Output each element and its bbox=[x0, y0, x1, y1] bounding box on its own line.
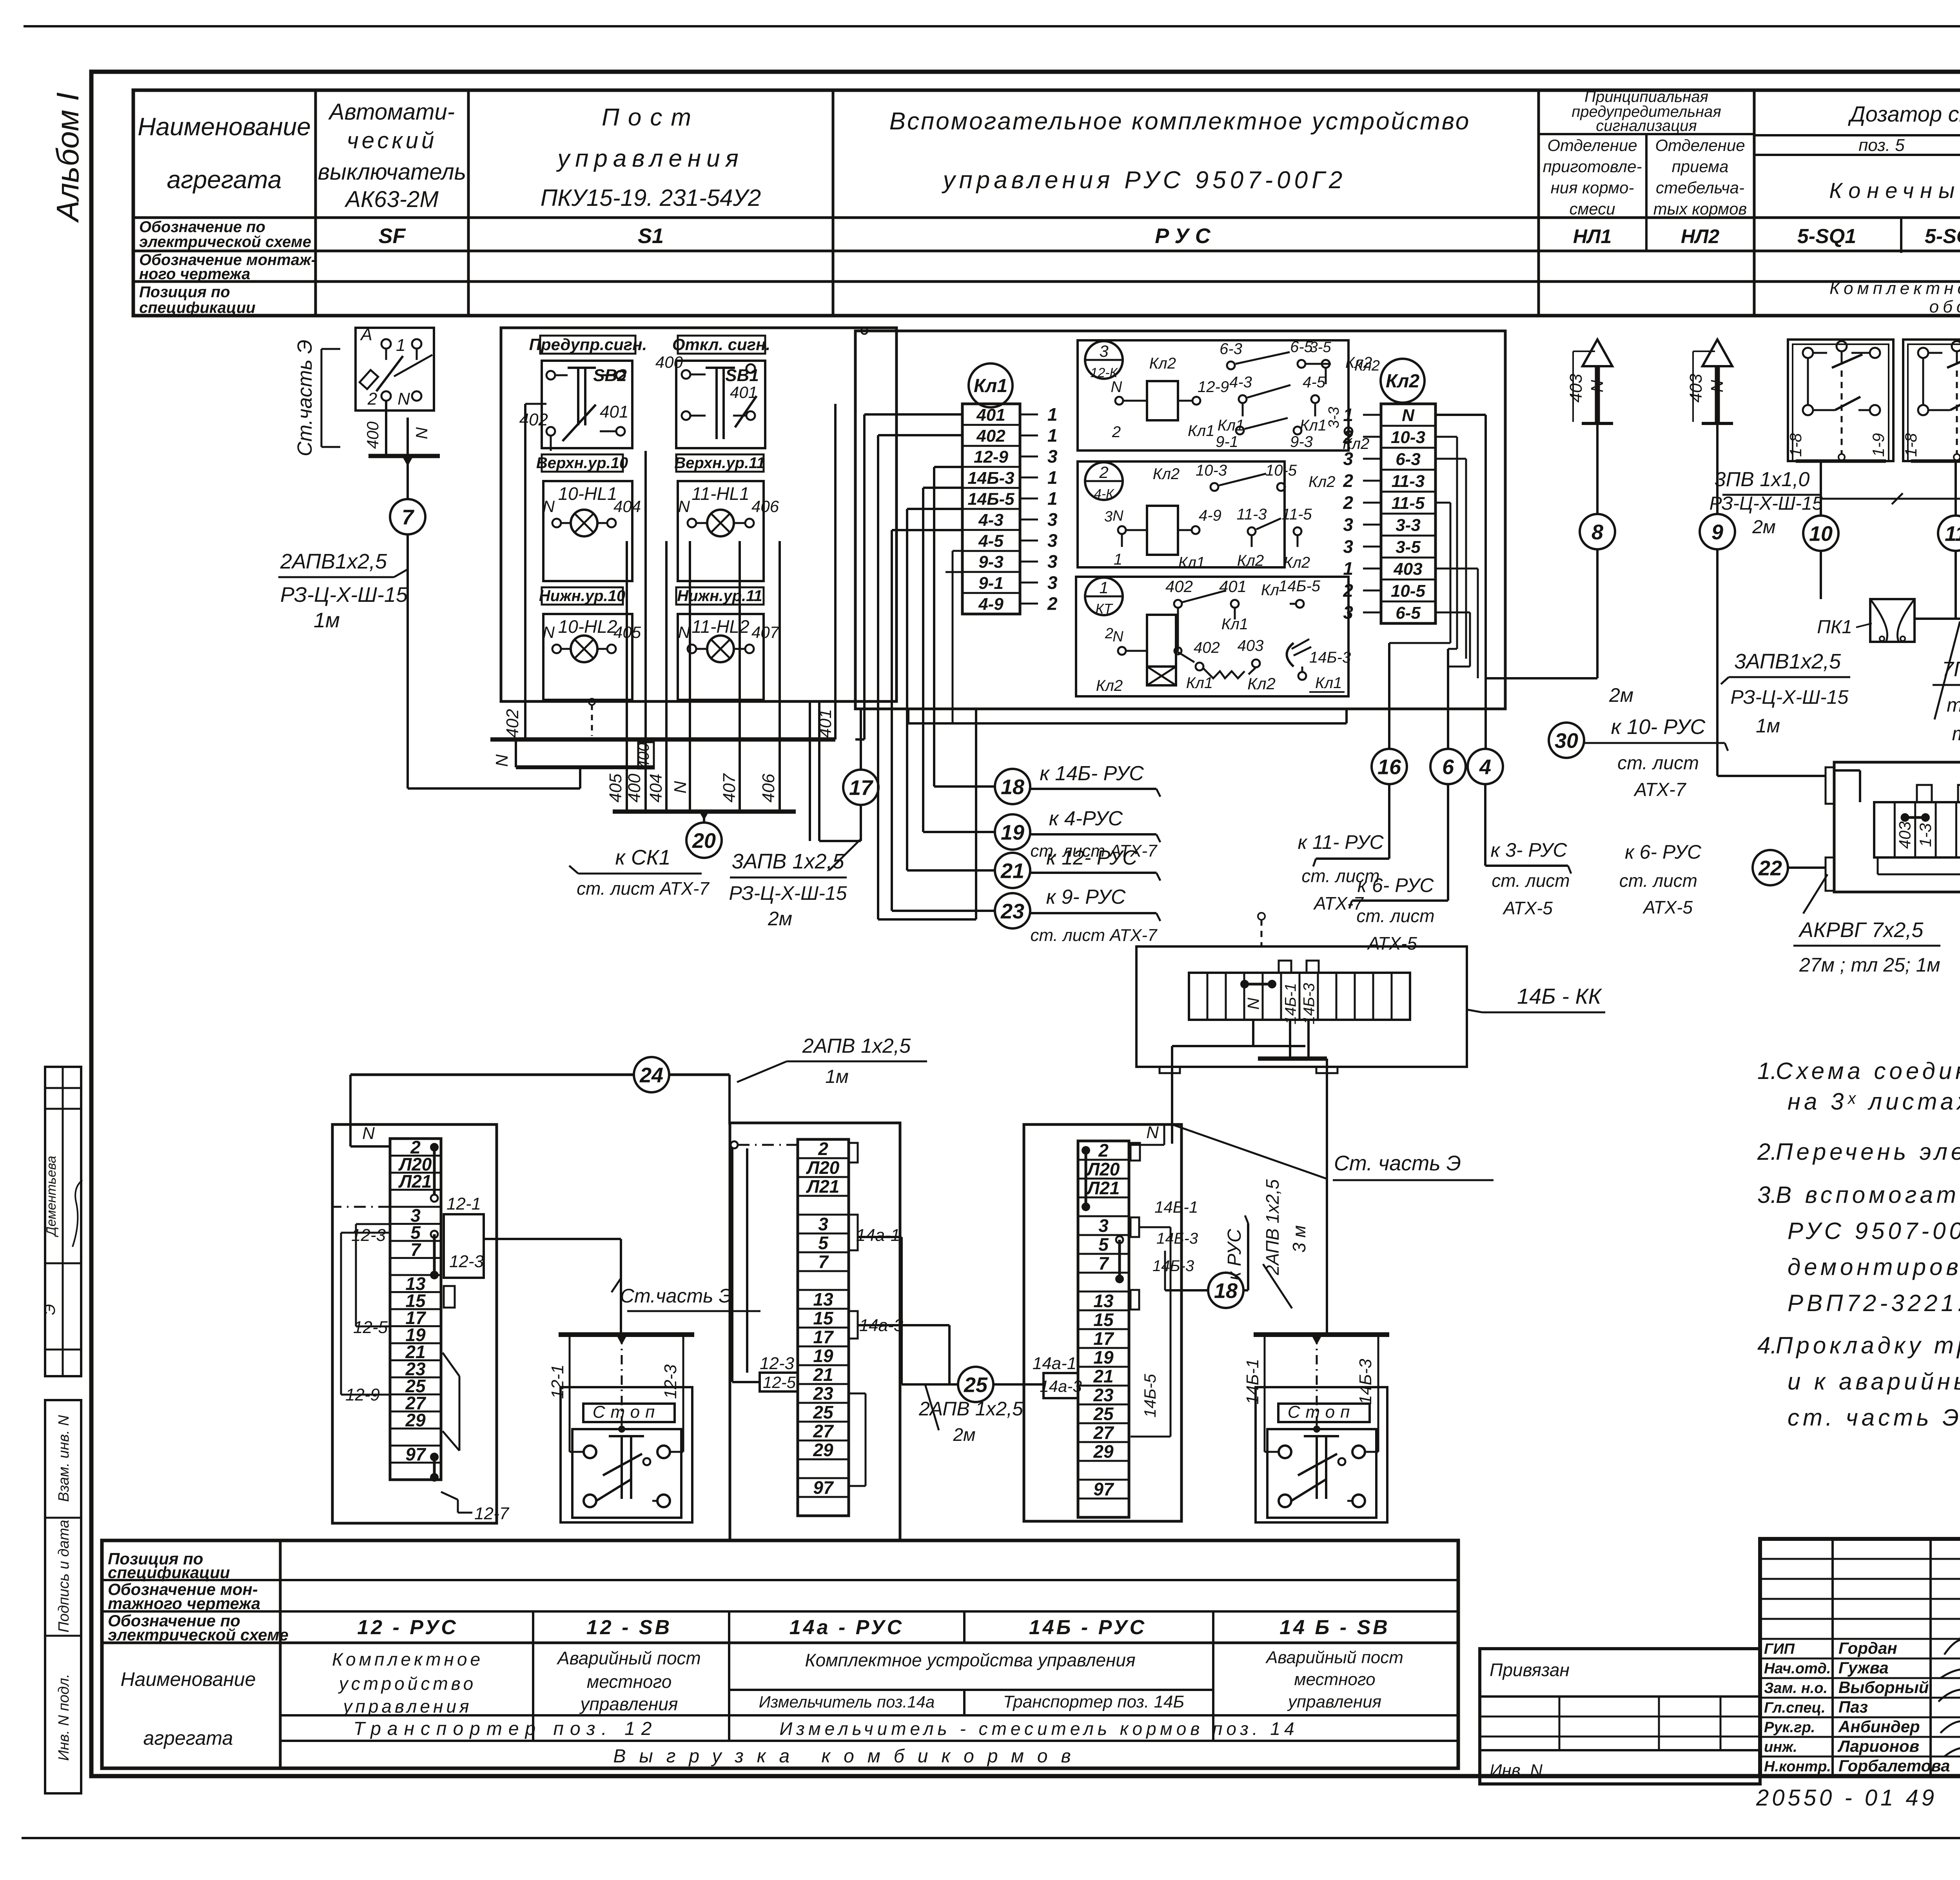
svg-text:14Б-1: 14Б-1 bbox=[1282, 983, 1299, 1024]
svg-text:спецификации: спецификации bbox=[139, 299, 256, 316]
svg-text:14Б-1: 14Б-1 bbox=[1243, 1359, 1262, 1405]
svg-text:Кл2: Кл2 bbox=[1247, 674, 1276, 693]
svg-text:Стоп: Стоп bbox=[593, 1402, 661, 1422]
svg-text:4-3: 4-3 bbox=[978, 510, 1004, 530]
svg-text:Ларионов: Ларионов bbox=[1837, 1737, 1919, 1755]
svg-text:14Б-5: 14Б-5 bbox=[1141, 1374, 1159, 1418]
svg-text:12-7: 12-7 bbox=[474, 1504, 510, 1523]
svg-text:1: 1 bbox=[1047, 467, 1058, 488]
svg-text:5: 5 bbox=[818, 1233, 829, 1253]
svg-text:Инв. N подл.: Инв. N подл. bbox=[56, 1674, 72, 1761]
svg-text:2.: 2. bbox=[1757, 1139, 1777, 1165]
svg-text:3АПВ1х2,5: 3АПВ1х2,5 bbox=[1734, 650, 1841, 673]
svg-text:29: 29 bbox=[405, 1410, 426, 1430]
svg-text:17: 17 bbox=[813, 1327, 834, 1347]
svg-text:РЗ-Ц-Х-Ш-15: РЗ-Ц-Х-Ш-15 bbox=[1731, 686, 1849, 708]
svg-text:3-3: 3-3 bbox=[1326, 407, 1342, 429]
svg-text:т 25; 5м: т 25; 5м bbox=[1952, 723, 1960, 745]
svg-text:27: 27 bbox=[1093, 1422, 1114, 1443]
svg-text:23: 23 bbox=[1000, 899, 1024, 923]
svg-text:2: 2 bbox=[1112, 423, 1121, 441]
svg-text:оборудованием: оборудованием bbox=[1929, 297, 1960, 316]
svg-text:10-HL1: 10-HL1 bbox=[558, 483, 617, 504]
svg-text:3-5: 3-5 bbox=[1396, 538, 1421, 557]
svg-text:N: N bbox=[1146, 1123, 1159, 1142]
svg-text:14а-1: 14а-1 bbox=[1033, 1354, 1077, 1373]
svg-text:401: 401 bbox=[976, 405, 1005, 425]
svg-text:10-5: 10-5 bbox=[1391, 581, 1426, 601]
svg-text:1: 1 bbox=[396, 336, 405, 355]
svg-text:Подпись и дата: Подпись и дата bbox=[56, 1520, 72, 1632]
svg-text:приготовле-: приготовле- bbox=[1543, 157, 1642, 176]
svg-text:4-9: 4-9 bbox=[1199, 507, 1221, 524]
svg-text:РЗ-Ц-Х-Ш-15: РЗ-Ц-Х-Ш-15 bbox=[729, 882, 847, 904]
svg-text:402: 402 bbox=[519, 410, 548, 429]
svg-text:НЛ2: НЛ2 bbox=[1681, 225, 1719, 247]
svg-text:4-К: 4-К bbox=[1094, 487, 1114, 501]
svg-text:14а - РУС: 14а - РУС bbox=[789, 1616, 904, 1639]
svg-text:к 4-РУС: к 4-РУС bbox=[1049, 807, 1123, 830]
svg-text:4.: 4. bbox=[1757, 1332, 1777, 1359]
svg-text:Кл1: Кл1 bbox=[1186, 674, 1213, 692]
svg-text:местного: местного bbox=[587, 1671, 672, 1692]
svg-text:1м: 1м bbox=[825, 1066, 849, 1087]
svg-text:2: 2 bbox=[1343, 492, 1353, 513]
svg-text:29: 29 bbox=[1093, 1441, 1114, 1462]
svg-text:А: А bbox=[359, 325, 372, 344]
svg-text:Верхн.ур.11: Верхн.ур.11 bbox=[674, 454, 765, 472]
svg-text:12 - SB: 12 - SB bbox=[586, 1616, 672, 1639]
svg-text:2АПВ 1х2,5: 2АПВ 1х2,5 bbox=[802, 1035, 911, 1057]
svg-text:1: 1 bbox=[1099, 578, 1108, 597]
svg-text:Комплектное устройства управле: Комплектное устройства управления bbox=[805, 1650, 1135, 1670]
svg-text:к 9- РУС: к 9- РУС bbox=[1046, 886, 1126, 908]
svg-text:Комплектно с технологическим: Комплектно с технологическим bbox=[1829, 279, 1960, 298]
svg-text:N: N bbox=[671, 781, 690, 794]
svg-text:407: 407 bbox=[720, 773, 739, 803]
svg-text:5: 5 bbox=[1098, 1234, 1109, 1255]
svg-text:3: 3 bbox=[1047, 509, 1058, 530]
svg-text:N: N bbox=[678, 623, 690, 641]
svg-text:инж.: инж. bbox=[1764, 1739, 1797, 1755]
svg-text:1м: 1м bbox=[314, 609, 340, 632]
svg-text:3-5: 3-5 bbox=[1310, 339, 1332, 356]
svg-text:14а-3: 14а-3 bbox=[1040, 1377, 1082, 1395]
svg-text:2: 2 bbox=[1099, 463, 1108, 481]
svg-text:8: 8 bbox=[1592, 520, 1603, 544]
svg-text:Верхн.ур.10: Верхн.ур.10 bbox=[536, 454, 628, 472]
svg-text:ст. лист: ст. лист bbox=[1492, 870, 1570, 891]
svg-text:400: 400 bbox=[363, 421, 382, 449]
svg-text:2: 2 bbox=[1105, 625, 1113, 642]
svg-text:ст. лист: ст. лист bbox=[1356, 906, 1434, 926]
svg-text:Анбиндер: Анбиндер bbox=[1838, 1717, 1920, 1736]
svg-text:Транспортер поз. 12: Транспортер поз. 12 bbox=[354, 1718, 658, 1739]
svg-text:1: 1 bbox=[1047, 404, 1058, 425]
svg-text:4: 4 bbox=[1479, 755, 1491, 779]
svg-text:N: N bbox=[492, 754, 512, 767]
svg-text:2: 2 bbox=[818, 1139, 828, 1159]
svg-text:Инв. N: Инв. N bbox=[1490, 1761, 1543, 1780]
svg-text:N: N bbox=[543, 497, 555, 516]
svg-text:Наименование: Наименование bbox=[120, 1668, 256, 1690]
svg-text:N: N bbox=[412, 427, 431, 439]
svg-text:97: 97 bbox=[1093, 1479, 1114, 1499]
svg-text:29: 29 bbox=[813, 1440, 833, 1460]
svg-text:к 3- РУС: к 3- РУС bbox=[1490, 839, 1567, 861]
svg-text:1: 1 bbox=[1047, 488, 1058, 509]
svg-text:SB1: SB1 bbox=[725, 366, 759, 385]
svg-text:22: 22 bbox=[1758, 856, 1782, 880]
svg-text:3: 3 bbox=[1099, 342, 1108, 360]
svg-text:ГИП: ГИП bbox=[1764, 1641, 1795, 1657]
svg-text:Измельчитель - стеситель корм: Измельчитель - стеситель кормов поз. 14 bbox=[779, 1718, 1298, 1739]
svg-text:Позиция по: Позиция по bbox=[139, 283, 230, 301]
svg-text:10: 10 bbox=[1809, 522, 1833, 545]
svg-text:Предупр.сигн.: Предупр.сигн. bbox=[529, 335, 647, 354]
svg-text:14Б-3: 14Б-3 bbox=[1152, 1257, 1194, 1275]
svg-text:Кл1: Кл1 bbox=[974, 376, 1007, 396]
svg-text:стебельча-: стебельча- bbox=[1656, 178, 1744, 197]
svg-text:Автомати-: Автомати- bbox=[328, 99, 455, 125]
svg-text:400: 400 bbox=[625, 774, 644, 803]
svg-text:Кл1: Кл1 bbox=[1178, 554, 1205, 571]
svg-text:1-3: 1-3 bbox=[1916, 823, 1935, 847]
svg-text:19: 19 bbox=[1001, 821, 1024, 844]
svg-text:13: 13 bbox=[1093, 1291, 1114, 1311]
svg-text:N: N bbox=[397, 389, 410, 409]
svg-text:1-8: 1-8 bbox=[1786, 433, 1805, 457]
svg-text:местного: местного bbox=[1294, 1670, 1375, 1689]
svg-text:Комплектное: Комплектное bbox=[332, 1649, 483, 1669]
svg-text:Кл: Кл bbox=[1261, 581, 1279, 599]
svg-text:1-8: 1-8 bbox=[1902, 433, 1920, 457]
svg-text:3: 3 bbox=[1104, 509, 1112, 525]
svg-text:к 14Б- РУС: к 14Б- РУС bbox=[1040, 762, 1144, 785]
svg-text:к 11- РУС: к 11- РУС bbox=[1298, 831, 1384, 853]
svg-text:демонтировать и заменить на ре: демонтировать и заменить на реле времени bbox=[1788, 1254, 1960, 1280]
svg-text:ческий: ческий bbox=[347, 128, 437, 153]
svg-text:ст. лист АТХ-7: ст. лист АТХ-7 bbox=[577, 878, 710, 899]
svg-text:10-3: 10-3 bbox=[1391, 428, 1425, 447]
svg-text:ст. лист АТХ-7: ст. лист АТХ-7 bbox=[1030, 926, 1158, 945]
svg-text:3АПВ 1х2,5: 3АПВ 1х2,5 bbox=[731, 850, 844, 873]
svg-text:ния кормо-: ния кормо- bbox=[1551, 178, 1634, 197]
svg-text:24: 24 bbox=[639, 1063, 663, 1087]
svg-text:АТХ-5: АТХ-5 bbox=[1642, 897, 1693, 917]
svg-text:Привязан: Привязан bbox=[1490, 1660, 1570, 1680]
svg-text:Гордан: Гордан bbox=[1838, 1639, 1897, 1657]
svg-text:1: 1 bbox=[1114, 551, 1122, 568]
svg-text:АТХ-5: АТХ-5 bbox=[1502, 898, 1553, 918]
svg-text:400: 400 bbox=[635, 743, 652, 769]
svg-text:2м: 2м bbox=[1609, 684, 1633, 706]
svg-text:12-5: 12-5 bbox=[763, 1373, 796, 1391]
svg-text:SB2: SB2 bbox=[593, 366, 627, 385]
svg-text:N: N bbox=[1112, 628, 1123, 645]
svg-text:14Б - РУС: 14Б - РУС bbox=[1029, 1616, 1147, 1639]
svg-text:7: 7 bbox=[410, 1239, 421, 1260]
svg-text:В вспомогательном устройстве у: В вспомогательном устройстве управления bbox=[1776, 1182, 1960, 1208]
svg-text:3: 3 bbox=[1047, 551, 1058, 572]
svg-text:3: 3 bbox=[818, 1214, 828, 1234]
svg-text:6-5: 6-5 bbox=[1396, 603, 1421, 623]
svg-text:1: 1 bbox=[1047, 425, 1058, 446]
svg-text:7: 7 bbox=[818, 1252, 829, 1272]
svg-text:25: 25 bbox=[964, 1373, 988, 1397]
svg-text:тл 25; 4м: тл 25; 4м bbox=[1947, 694, 1960, 716]
svg-text:Л21: Л21 bbox=[1086, 1178, 1120, 1198]
svg-text:НЛ1: НЛ1 bbox=[1573, 225, 1612, 247]
svg-text:РЗ-Ц-Х-Ш-15: РЗ-Ц-Х-Ш-15 bbox=[1710, 493, 1823, 514]
svg-text:РЗ-Ц-Х-Ш-15: РЗ-Ц-Х-Ш-15 bbox=[280, 583, 408, 607]
svg-text:РУС: РУС bbox=[1155, 224, 1217, 248]
svg-text:15: 15 bbox=[813, 1308, 834, 1328]
svg-text:2м: 2м bbox=[1752, 517, 1776, 538]
svg-text:4-5: 4-5 bbox=[1303, 374, 1326, 391]
svg-text:N: N bbox=[362, 1124, 375, 1143]
svg-text:17: 17 bbox=[849, 776, 874, 799]
svg-text:3: 3 bbox=[1343, 536, 1353, 557]
svg-text:Гужва: Гужва bbox=[1838, 1658, 1889, 1677]
svg-text:Кл1: Кл1 bbox=[1188, 422, 1214, 440]
svg-text:3.: 3. bbox=[1757, 1182, 1777, 1208]
svg-text:Дементьева: Дементьева bbox=[44, 1156, 59, 1237]
svg-text:РУС 9507-00Г2 реле промежуточн: РУС 9507-00Г2 реле промежуточное РПУ1 bbox=[1788, 1218, 1960, 1244]
svg-text:Кл2: Кл2 bbox=[1149, 355, 1176, 372]
svg-text:Вспомогательное комплектное: Вспомогательное комплектное устройство bbox=[889, 108, 1471, 135]
svg-text:3: 3 bbox=[1098, 1215, 1109, 1236]
svg-text:97: 97 bbox=[405, 1444, 426, 1464]
svg-text:Кл2: Кл2 bbox=[1283, 554, 1310, 571]
svg-text:15: 15 bbox=[1093, 1310, 1114, 1330]
svg-text:Ст.часть Э: Ст.часть Э bbox=[620, 1285, 732, 1307]
svg-text:6-3: 6-3 bbox=[1220, 340, 1242, 358]
svg-text:402: 402 bbox=[1165, 577, 1193, 596]
svg-text:18: 18 bbox=[1214, 1279, 1238, 1302]
svg-text:1.: 1. bbox=[1757, 1058, 1777, 1084]
svg-text:12-9: 12-9 bbox=[345, 1385, 380, 1404]
svg-text:400: 400 bbox=[655, 353, 683, 371]
svg-text:управления: управления bbox=[342, 1696, 472, 1717]
svg-text:402: 402 bbox=[976, 427, 1005, 446]
svg-text:12-3: 12-3 bbox=[449, 1252, 484, 1271]
svg-text:ПК1: ПК1 bbox=[1817, 617, 1852, 638]
svg-text:АТХ-5: АТХ-5 bbox=[1367, 933, 1417, 954]
svg-text:9: 9 bbox=[1711, 520, 1723, 544]
svg-text:27м ; тл 25; 1м: 27м ; тл 25; 1м bbox=[1799, 954, 1940, 976]
svg-text:14Б-3: 14Б-3 bbox=[1156, 1230, 1198, 1247]
svg-text:управления РУС 9507-00Г2: управления РУС 9507-00Г2 bbox=[942, 167, 1347, 194]
svg-text:405: 405 bbox=[606, 774, 625, 803]
svg-text:к СК1: к СК1 bbox=[615, 846, 670, 869]
svg-text:3 м: 3 м bbox=[1289, 1225, 1309, 1253]
svg-text:7: 7 bbox=[1098, 1253, 1109, 1273]
svg-text:4-9: 4-9 bbox=[978, 594, 1004, 614]
svg-text:Гл.спец.: Гл.спец. bbox=[1764, 1700, 1826, 1716]
svg-text:2АПВ1х2,5: 2АПВ1х2,5 bbox=[280, 550, 387, 573]
svg-text:Нижн.ур.10: Нижн.ур.10 bbox=[539, 587, 625, 605]
svg-text:401: 401 bbox=[730, 383, 757, 401]
svg-text:14Б-5: 14Б-5 bbox=[1279, 578, 1321, 595]
svg-text:10-HL2: 10-HL2 bbox=[558, 616, 617, 637]
svg-text:Кл1: Кл1 bbox=[1221, 616, 1248, 633]
svg-text:403: 403 bbox=[1686, 374, 1706, 403]
svg-text:N: N bbox=[1244, 997, 1263, 1010]
svg-text:Л21: Л21 bbox=[806, 1176, 840, 1197]
svg-text:20550 - 01 49: 20550 - 01 49 bbox=[1756, 1785, 1937, 1811]
svg-text:17: 17 bbox=[1093, 1328, 1114, 1349]
svg-text:Кл1: Кл1 bbox=[1300, 417, 1327, 434]
svg-text:сигнализация: сигнализация bbox=[1596, 117, 1697, 134]
svg-text:Прокладку трасс от РУСов до к: Прокладку трасс от РУСов до клеммной кор… bbox=[1776, 1332, 1960, 1359]
svg-text:Кл2: Кл2 bbox=[1354, 358, 1380, 374]
svg-text:401: 401 bbox=[816, 709, 835, 737]
svg-text:управления: управления bbox=[1287, 1692, 1381, 1711]
svg-text:Дозатор стебельчатых кормов: Дозатор стебельчатых кормов bbox=[1847, 102, 1960, 126]
svg-text:РВП72-3221.: РВП72-3221. bbox=[1788, 1290, 1960, 1316]
svg-text:ПКУ15-19. 231-54У2: ПКУ15-19. 231-54У2 bbox=[541, 185, 761, 211]
svg-text:КТ: КТ bbox=[1095, 601, 1113, 617]
svg-text:Л20: Л20 bbox=[806, 1157, 840, 1178]
svg-text:Схема соединений внешних прово: Схема соединений внешних проводок выполн… bbox=[1776, 1058, 1960, 1084]
svg-text:выключатель: выключатель bbox=[318, 159, 466, 185]
svg-text:Паз: Паз bbox=[1838, 1698, 1868, 1716]
svg-text:и к аварийным постам местного: и к аварийным постам местного управления bbox=[1788, 1368, 1960, 1395]
svg-text:4-3: 4-3 bbox=[1229, 374, 1252, 391]
svg-text:23: 23 bbox=[813, 1383, 833, 1404]
svg-text:Горбалетова: Горбалетова bbox=[1838, 1756, 1950, 1775]
svg-text:5-SQ1: 5-SQ1 bbox=[1797, 225, 1856, 248]
svg-text:11-HL1: 11-HL1 bbox=[691, 483, 749, 504]
svg-text:Альбом I: Альбом I bbox=[50, 92, 85, 223]
svg-text:9-1: 9-1 bbox=[978, 574, 1004, 593]
svg-text:на 3ˣ листах: АТХ-5 ... АТХ-7: на 3ˣ листах: АТХ-5 ... АТХ-7. bbox=[1788, 1088, 1960, 1115]
svg-text:20: 20 bbox=[692, 829, 716, 852]
svg-text:N: N bbox=[1402, 406, 1415, 425]
svg-text:устройство: устройство bbox=[338, 1673, 476, 1694]
svg-text:Рук.гр.: Рук.гр. bbox=[1764, 1719, 1815, 1736]
svg-text:401: 401 bbox=[1219, 577, 1247, 596]
svg-text:402: 402 bbox=[503, 709, 522, 737]
svg-text:ст. лист: ст. лист bbox=[1619, 870, 1697, 891]
svg-text:12-5: 12-5 bbox=[353, 1318, 388, 1337]
svg-text:12-1: 12-1 bbox=[548, 1364, 567, 1399]
svg-text:11: 11 bbox=[1945, 522, 1960, 545]
svg-text:403: 403 bbox=[1566, 374, 1586, 403]
svg-text:Кл2: Кл2 bbox=[1237, 552, 1264, 569]
svg-text:Аварийный пост: Аварийный пост bbox=[1265, 1648, 1403, 1667]
svg-text:Кл2: Кл2 bbox=[1386, 371, 1419, 392]
svg-text:403: 403 bbox=[1393, 559, 1422, 579]
svg-text:12-9: 12-9 bbox=[1198, 378, 1229, 396]
svg-text:10-5: 10-5 bbox=[1265, 462, 1297, 479]
svg-text:АК63-2М: АК63-2М bbox=[344, 187, 439, 212]
svg-text:14Б-3: 14Б-3 bbox=[1356, 1359, 1375, 1404]
svg-text:агрегата: агрегата bbox=[143, 1727, 233, 1749]
svg-text:402: 402 bbox=[1194, 639, 1220, 656]
svg-text:Стоп: Стоп bbox=[1288, 1402, 1356, 1422]
svg-text:Выборный: Выборный bbox=[1838, 1678, 1929, 1697]
svg-text:Кл1: Кл1 bbox=[1315, 674, 1342, 692]
svg-text:к РУС: к РУС bbox=[1224, 1229, 1245, 1281]
svg-text:2м: 2м bbox=[953, 1424, 975, 1445]
svg-text:N: N bbox=[1708, 380, 1727, 392]
svg-text:Нач.отд.: Нач.отд. bbox=[1764, 1660, 1831, 1677]
svg-text:12-1: 12-1 bbox=[446, 1194, 481, 1213]
svg-text:Перечень элементов ст. лист А: Перечень элементов ст. лист АТХ-7. bbox=[1776, 1139, 1960, 1165]
svg-text:электрической схеме: электрической схеме bbox=[139, 233, 311, 251]
svg-text:14Б - КК: 14Б - КК bbox=[1517, 984, 1602, 1008]
svg-text:14а-1: 14а-1 bbox=[856, 1226, 900, 1245]
svg-text:404: 404 bbox=[613, 497, 641, 516]
svg-text:21: 21 bbox=[1093, 1366, 1113, 1386]
svg-text:14Б-3: 14Б-3 bbox=[967, 469, 1014, 488]
svg-text:14Б-3: 14Б-3 bbox=[1301, 983, 1318, 1024]
svg-text:23: 23 bbox=[1093, 1385, 1114, 1405]
svg-text:12 - РУС: 12 - РУС bbox=[357, 1616, 458, 1639]
svg-text:Отделение: Отделение bbox=[1655, 136, 1745, 154]
svg-text:электрической схеме: электрической схеме bbox=[108, 1626, 289, 1644]
svg-text:2АПВ 1х2,5: 2АПВ 1х2,5 bbox=[1262, 1179, 1283, 1275]
svg-text:Л21: Л21 bbox=[398, 1171, 432, 1192]
svg-text:18: 18 bbox=[1001, 775, 1024, 799]
svg-text:3ПВ 1х1,0: 3ПВ 1х1,0 bbox=[1715, 468, 1810, 491]
svg-text:11-3: 11-3 bbox=[1236, 506, 1267, 523]
svg-text:Ст.часть Э: Ст.часть Э bbox=[294, 340, 316, 456]
svg-text:406: 406 bbox=[759, 774, 778, 803]
svg-text:404: 404 bbox=[646, 774, 666, 802]
svg-text:407: 407 bbox=[751, 623, 780, 641]
svg-text:4-5: 4-5 bbox=[978, 532, 1004, 551]
svg-text:поз. 5: поз. 5 bbox=[1858, 136, 1905, 155]
svg-text:к 12- РУС: к 12- РУС bbox=[1046, 846, 1137, 869]
svg-text:3: 3 bbox=[1047, 530, 1058, 551]
svg-text:21: 21 bbox=[1000, 859, 1024, 883]
svg-text:19: 19 bbox=[1093, 1347, 1114, 1368]
svg-text:Зам. н.о.: Зам. н.о. bbox=[1764, 1680, 1828, 1697]
svg-text:Конечные выключатели: Конечные выключатели bbox=[1829, 178, 1960, 203]
svg-text:1-9: 1-9 bbox=[1869, 433, 1887, 457]
svg-text:управления: управления bbox=[579, 1694, 678, 1714]
svg-text:Л20: Л20 bbox=[1086, 1159, 1120, 1179]
svg-text:14Б-5: 14Б-5 bbox=[967, 489, 1014, 509]
svg-text:97: 97 bbox=[813, 1477, 834, 1498]
svg-text:АКРВГ 7х2,5: АКРВГ 7х2,5 bbox=[1798, 918, 1924, 942]
svg-text:агрегата: агрегата bbox=[167, 165, 282, 194]
svg-text:403: 403 bbox=[1896, 821, 1914, 849]
svg-text:Откл. сигн.: Откл. сигн. bbox=[672, 335, 770, 354]
svg-text:14Б-3: 14Б-3 bbox=[1309, 649, 1351, 666]
svg-text:SF: SF bbox=[378, 224, 406, 248]
svg-text:11-5: 11-5 bbox=[1281, 506, 1312, 523]
svg-text:N: N bbox=[1588, 380, 1607, 392]
svg-text:3: 3 bbox=[1047, 572, 1058, 593]
svg-text:7: 7 bbox=[402, 505, 415, 529]
svg-text:12-9: 12-9 bbox=[974, 447, 1009, 467]
svg-text:Э: Э bbox=[41, 1304, 58, 1315]
svg-text:2: 2 bbox=[1343, 470, 1353, 491]
svg-text:11-5: 11-5 bbox=[1392, 494, 1425, 513]
svg-text:12-3: 12-3 bbox=[760, 1354, 795, 1373]
svg-text:N: N bbox=[543, 623, 555, 641]
svg-text:27: 27 bbox=[813, 1421, 834, 1441]
svg-text:управления: управления bbox=[556, 145, 744, 172]
svg-text:11-3: 11-3 bbox=[1392, 472, 1425, 491]
svg-text:Наименование: Наименование bbox=[138, 113, 311, 141]
svg-text:14Б-1: 14Б-1 bbox=[1154, 1198, 1198, 1216]
svg-text:6: 6 bbox=[1442, 755, 1454, 779]
